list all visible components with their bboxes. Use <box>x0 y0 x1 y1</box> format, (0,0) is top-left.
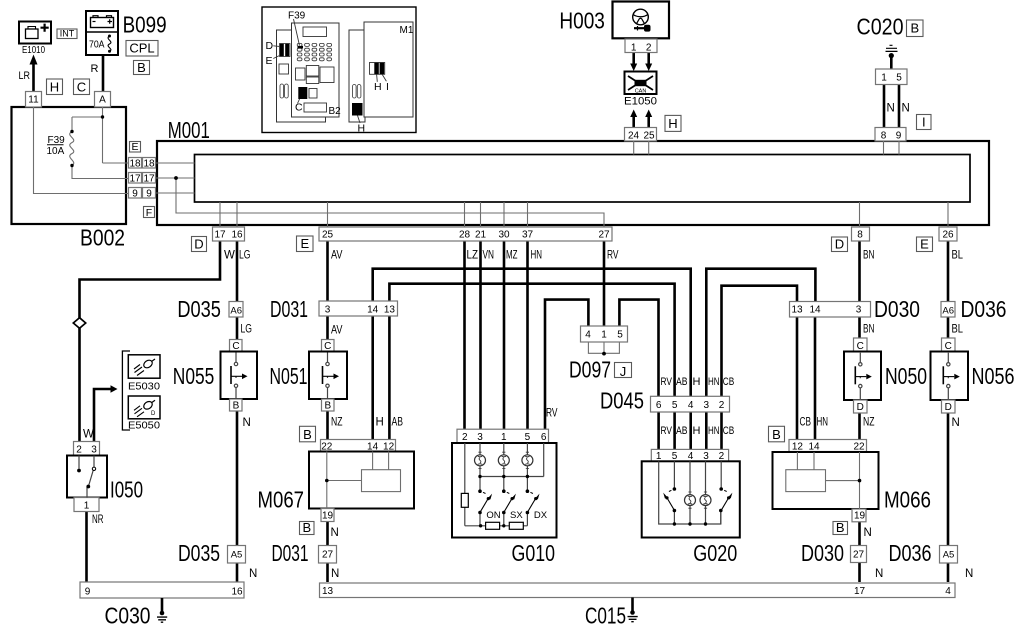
svg-text:14: 14 <box>367 304 379 315</box>
svg-text:J: J <box>620 364 627 379</box>
svg-text:AV: AV <box>331 249 343 261</box>
svg-text:3: 3 <box>856 305 862 316</box>
svg-text:RV: RV <box>607 250 619 262</box>
svg-text:N: N <box>864 527 872 539</box>
svg-text:B: B <box>303 427 312 442</box>
svg-text:H: H <box>668 116 677 131</box>
svg-text:3: 3 <box>703 451 709 462</box>
svg-text:M001: M001 <box>168 117 210 143</box>
svg-text:E: E <box>131 141 138 153</box>
svg-text:H: H <box>374 81 382 93</box>
svg-text:B: B <box>137 60 146 75</box>
svg-text:NZ: NZ <box>331 417 343 429</box>
svg-text:3: 3 <box>325 304 331 315</box>
svg-text:D036: D036 <box>889 540 932 566</box>
svg-text:C: C <box>324 341 331 352</box>
svg-text:E1010: E1010 <box>22 45 45 56</box>
svg-text:D030: D030 <box>801 540 844 566</box>
svg-text:37: 37 <box>522 230 534 241</box>
svg-text:8: 8 <box>881 130 887 141</box>
svg-text:C015: C015 <box>585 603 626 625</box>
svg-text:E: E <box>300 236 309 251</box>
svg-text:5: 5 <box>525 432 531 443</box>
svg-text:28: 28 <box>459 230 471 241</box>
svg-text:C: C <box>77 80 86 95</box>
svg-text:4: 4 <box>688 400 694 411</box>
svg-text:B002: B002 <box>80 225 125 251</box>
svg-text:N: N <box>331 568 339 580</box>
svg-text:16: 16 <box>231 586 243 597</box>
svg-text:LZ: LZ <box>467 250 479 262</box>
svg-text:BN: BN <box>863 324 875 336</box>
svg-text:11: 11 <box>28 95 39 106</box>
svg-text:2: 2 <box>646 43 652 54</box>
svg-text:M1: M1 <box>400 25 414 36</box>
svg-text:E5030: E5030 <box>128 381 160 393</box>
svg-text:27: 27 <box>598 230 610 241</box>
svg-text:9: 9 <box>85 586 91 597</box>
svg-text:2: 2 <box>76 444 82 455</box>
svg-text:B: B <box>324 400 331 411</box>
svg-text:RV: RV <box>661 425 673 437</box>
svg-text:CAN: CAN <box>635 89 647 95</box>
svg-text:INT: INT <box>60 29 75 39</box>
svg-text:C: C <box>857 341 864 352</box>
svg-text:CPL: CPL <box>129 41 154 56</box>
svg-text:F39: F39 <box>288 11 306 22</box>
svg-text:D: D <box>151 411 156 417</box>
svg-text:MZ: MZ <box>506 250 518 262</box>
svg-text:HN: HN <box>817 417 829 429</box>
svg-text:ON: ON <box>486 510 500 521</box>
svg-text:M066: M066 <box>884 487 931 513</box>
svg-text:3: 3 <box>91 444 97 455</box>
svg-text:5: 5 <box>896 73 902 84</box>
svg-text:D035: D035 <box>177 296 221 322</box>
svg-text:W: W <box>224 249 235 261</box>
svg-text:4: 4 <box>688 451 694 462</box>
svg-text:N: N <box>875 568 883 580</box>
svg-text:N: N <box>249 568 257 580</box>
svg-text:VN: VN <box>483 250 495 262</box>
svg-text:R: R <box>91 63 99 75</box>
svg-text:E5050: E5050 <box>128 420 160 432</box>
svg-text:I: I <box>386 81 389 93</box>
svg-text:N: N <box>243 417 251 429</box>
svg-text:SX: SX <box>510 510 523 521</box>
svg-text:18: 18 <box>129 158 141 169</box>
svg-text:3: 3 <box>704 400 710 411</box>
svg-text:NZ: NZ <box>863 417 875 429</box>
svg-text:LR: LR <box>19 70 31 82</box>
svg-text:HN: HN <box>708 425 720 437</box>
svg-text:AB: AB <box>392 417 404 429</box>
svg-text:N: N <box>952 417 960 429</box>
svg-text:1: 1 <box>881 73 887 84</box>
svg-text:HN: HN <box>708 376 720 388</box>
svg-text:17: 17 <box>854 586 866 597</box>
svg-text:N: N <box>887 103 895 115</box>
svg-text:I: I <box>922 115 926 130</box>
svg-text:26: 26 <box>942 230 954 241</box>
svg-text:B: B <box>910 21 919 36</box>
svg-text:1: 1 <box>631 43 637 54</box>
svg-text:D036: D036 <box>961 296 1007 322</box>
svg-text:24: 24 <box>628 130 640 141</box>
svg-text:A6: A6 <box>230 306 242 317</box>
svg-text:C: C <box>232 341 239 352</box>
svg-text:25: 25 <box>643 130 655 141</box>
svg-text:9: 9 <box>132 188 138 199</box>
svg-text:D045: D045 <box>600 388 644 414</box>
svg-text:8: 8 <box>857 230 863 241</box>
svg-text:N056: N056 <box>972 363 1015 389</box>
svg-text:6: 6 <box>541 432 547 443</box>
svg-text:12: 12 <box>792 441 804 452</box>
svg-text:H: H <box>693 376 701 388</box>
svg-text:10A: 10A <box>47 146 65 157</box>
svg-text:18: 18 <box>143 158 155 169</box>
svg-text:14: 14 <box>808 441 820 452</box>
svg-text:AV: AV <box>331 325 343 337</box>
svg-text:3: 3 <box>477 432 483 443</box>
svg-text:14: 14 <box>809 305 821 316</box>
svg-text:BL: BL <box>952 249 964 261</box>
svg-text:N055: N055 <box>173 363 215 389</box>
svg-text:N: N <box>965 568 973 580</box>
svg-text:D: D <box>857 402 864 413</box>
svg-text:27: 27 <box>322 550 334 561</box>
svg-text:AB: AB <box>676 376 688 388</box>
svg-text:D: D <box>835 237 844 252</box>
svg-text:5: 5 <box>672 400 678 411</box>
svg-text:30: 30 <box>498 230 510 241</box>
svg-text:A6: A6 <box>942 306 954 317</box>
svg-text:D030: D030 <box>874 296 920 322</box>
svg-text:B: B <box>233 400 240 411</box>
svg-text:13: 13 <box>791 305 803 316</box>
svg-text:17: 17 <box>143 173 155 184</box>
svg-text:M067: M067 <box>258 487 305 513</box>
svg-text:19: 19 <box>322 510 334 521</box>
svg-text:F39: F39 <box>48 135 66 146</box>
svg-text:27: 27 <box>853 550 865 561</box>
svg-text:D031: D031 <box>272 540 309 566</box>
svg-text:2: 2 <box>462 432 468 443</box>
svg-text:B099: B099 <box>123 12 167 38</box>
svg-text:N: N <box>902 103 910 115</box>
svg-text:D035: D035 <box>178 540 220 566</box>
svg-text:CB: CB <box>723 425 735 437</box>
svg-text:6: 6 <box>656 400 662 411</box>
svg-text:9: 9 <box>146 188 152 199</box>
svg-text:N051: N051 <box>270 363 308 389</box>
svg-text:13: 13 <box>322 586 334 597</box>
svg-text:H: H <box>358 123 366 135</box>
svg-text:I050: I050 <box>110 477 143 503</box>
svg-text:W: W <box>83 429 94 441</box>
svg-text:E1050: E1050 <box>624 96 657 108</box>
svg-text:N050: N050 <box>885 363 927 389</box>
svg-text:B: B <box>302 520 311 535</box>
svg-text:17: 17 <box>214 230 226 241</box>
svg-text:D: D <box>945 402 952 413</box>
svg-text:B2: B2 <box>329 106 342 117</box>
svg-text:2: 2 <box>719 400 725 411</box>
svg-text:LG: LG <box>239 249 251 261</box>
svg-text:70A: 70A <box>89 39 105 51</box>
svg-text:D: D <box>194 236 203 251</box>
svg-text:NR: NR <box>92 514 104 526</box>
svg-text:BL: BL <box>952 324 964 336</box>
svg-text:H: H <box>693 425 701 437</box>
svg-text:1: 1 <box>601 330 607 341</box>
svg-text:9: 9 <box>896 130 902 141</box>
svg-text:HN: HN <box>531 250 543 262</box>
svg-text:12: 12 <box>383 441 395 452</box>
svg-text:E: E <box>266 55 273 67</box>
svg-text:1: 1 <box>656 451 662 462</box>
svg-text:D031: D031 <box>270 296 308 322</box>
svg-text:D097: D097 <box>569 357 611 383</box>
svg-text:CB: CB <box>800 417 812 429</box>
svg-text:21: 21 <box>475 230 487 241</box>
svg-text:B: B <box>772 427 781 442</box>
svg-text:13: 13 <box>384 304 396 315</box>
svg-text:A5: A5 <box>943 550 955 561</box>
svg-text:H003: H003 <box>559 8 605 34</box>
svg-text:22: 22 <box>853 441 865 452</box>
svg-text:C020: C020 <box>857 14 904 40</box>
svg-text:N: N <box>331 527 339 539</box>
svg-text:A5: A5 <box>231 550 243 561</box>
svg-text:C: C <box>945 341 952 352</box>
svg-text:C030: C030 <box>105 603 151 625</box>
svg-text:G010: G010 <box>512 540 556 566</box>
svg-text:1: 1 <box>501 432 507 443</box>
svg-text:F: F <box>146 207 152 219</box>
svg-text:E: E <box>920 237 929 252</box>
svg-text:B: B <box>836 520 845 535</box>
svg-text:RV: RV <box>661 376 673 388</box>
svg-text:H: H <box>50 80 59 95</box>
svg-text:G020: G020 <box>693 540 737 566</box>
svg-text:25: 25 <box>322 230 334 241</box>
svg-text:C: C <box>295 102 303 114</box>
svg-text:19: 19 <box>854 510 866 521</box>
svg-text:16: 16 <box>231 230 243 241</box>
svg-text:RV: RV <box>546 408 558 420</box>
svg-text:17: 17 <box>129 173 141 184</box>
svg-text:5: 5 <box>617 330 623 341</box>
svg-text:D: D <box>266 40 274 52</box>
svg-text:AB: AB <box>676 425 688 437</box>
svg-text:4: 4 <box>585 330 591 341</box>
svg-text:DX: DX <box>534 510 548 521</box>
svg-text:4: 4 <box>945 586 951 597</box>
svg-text:22: 22 <box>321 441 333 452</box>
svg-text:14: 14 <box>367 441 379 452</box>
svg-text:CB: CB <box>723 376 735 388</box>
svg-text:H: H <box>376 417 384 429</box>
svg-text:2: 2 <box>719 451 725 462</box>
svg-text:5: 5 <box>672 451 678 462</box>
svg-text:1: 1 <box>84 500 90 511</box>
svg-text:A: A <box>99 95 106 106</box>
svg-text:LG: LG <box>241 324 253 336</box>
svg-text:BN: BN <box>863 249 875 261</box>
